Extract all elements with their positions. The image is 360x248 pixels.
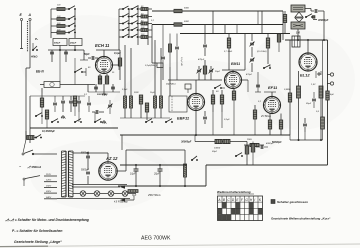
svg-text:5000pF: 5000pF [81,170,89,172]
wire HF bus lower [152,24,283,26]
svg-text:0,3MΩ: 0,3MΩ [284,89,291,91]
resistor right rail2 [321,117,325,129]
switch bank-B row3 + resistor [119,23,123,25]
switch mid row1 [145,121,147,123]
svg-text:5000: 5000 [184,21,190,23]
resistor el12 a [297,86,301,98]
wire bankA caps down [59,50,61,82]
svg-text:A: A [28,13,32,17]
wire ech bottom mesh [88,91,120,93]
resistor det4 [251,144,255,152]
svg-text:AEG 700WK: AEG 700WK [141,236,171,242]
svg-text:30pF: 30pF [212,151,218,153]
tube U2 EBF11 [188,94,205,111]
resistor band x75 [73,96,76,106]
svg-text:Schalter geschlossen: Schalter geschlossen [277,200,308,204]
svg-text:10,30000µF: 10,30000µF [42,130,55,133]
svg-text:0,1: 0,1 [151,20,154,22]
svg-text:1,3V: 1,3V [311,84,316,86]
wire right rail main [327,40,329,165]
tap 240V [44,198,57,200]
svg-text:EF11: EF11 [268,85,278,90]
tube U6 AZ12 rectifier [99,162,117,180]
resistor ef anode [288,93,291,102]
wire heater bottom [57,198,130,200]
component box mid [157,63,163,68]
resistor bank-A row1 + switch S1 [51,8,57,10]
output transformer box [292,36,300,47]
resistor bank-A row2 + switch S2 [51,18,57,20]
wire el12 anode [307,40,309,53]
choke L field coil [184,164,187,177]
wire em verticals [244,34,246,71]
capacitor col d [69,100,73,102]
wire em-ef link [257,72,259,92]
svg-text:0,7·10kΩ: 0,7·10kΩ [224,51,233,53]
tap 110V [44,175,57,177]
svg-text:240V: 240V [45,196,52,199]
wire HF bus upper [152,10,283,12]
wire band drop [29,96,31,128]
resistor bus2 left [174,23,182,26]
wire speaker col [297,29,299,40]
svg-text:2V 50mA: 2V 50mA [260,115,271,118]
wire power low bus [118,185,206,187]
svg-text:200V: 200V [45,191,52,193]
wire mid long bus [120,134,290,136]
svg-text:3µF: 3µF [132,194,137,197]
capacitor pad row [94,86,98,88]
wire em out [242,79,249,81]
resistor osc anode [118,58,121,66]
svg-text:250V 50mA: 250V 50mA [147,194,161,197]
tap 200V [44,192,57,194]
wire bank B rail [118,9,120,40]
capacitor band x55 [53,102,57,104]
terminal out2 [330,82,333,85]
svg-text:500µF: 500µF [54,43,61,45]
resistor mid band2 [145,103,148,112]
svg-text:100: 100 [98,78,103,81]
wire choke bottom [184,177,186,186]
wire left col [41,88,43,108]
wire IF bottoms [124,108,126,118]
capacitor right [312,98,316,100]
wire bankB->IF verticals [124,45,126,96]
svg-text:470pF: 470pF [246,73,253,76]
capacitor top right [314,9,316,13]
svg-text:0,1µF 4V: 0,1µF 4V [180,57,183,66]
ground band [62,115,64,117]
capacitor col c [61,100,65,102]
heater lamp 2 [94,191,100,197]
svg-text:30000pF: 30000pF [181,140,192,144]
svg-text:15pF: 15pF [150,92,155,94]
svg-text:P₂ = Schalter für Schnellsuc: P₂ = Schalter für Schnellsuchen [12,229,62,233]
resistor ef cath [268,120,271,129]
wire choke top [180,149,185,151]
wire E lead [21,21,23,47]
wire bank A rails [50,9,52,38]
wire A lead [29,21,31,62]
resistor mid band1 [139,95,142,104]
svg-text:40kΩ: 40kΩ [30,55,37,59]
wire drop 237 [236,25,238,34]
switch bank-B row5 + resistor [119,36,123,38]
svg-text:150V: 150V [46,185,52,187]
capacitor 5000pF a [86,155,90,157]
svg-text:5000: 5000 [97,94,103,96]
wire band top [30,95,85,97]
svg-text:ECH 11: ECH 11 [95,43,110,48]
capacitor ebf [203,116,207,118]
capacitor IF trim [95,110,97,114]
resistor det1 [215,139,222,143]
resistor ef r2 [279,120,282,129]
svg-text:EL12: EL12 [300,73,310,78]
resistor below bus3 [277,34,280,42]
coil IF2b [160,96,163,108]
wire bus drop 213 [212,11,214,34]
svg-text:A: A [217,198,220,202]
wire osc top [103,50,105,57]
trimmer mixer 2 [209,69,213,71]
svg-text:Gezeichnete Wellenschalterstel: Gezeichnete Wellenschalterstellung „Kurz… [271,217,331,221]
resistor mixer [203,66,206,74]
wire em right drop [267,60,269,64]
svg-text:50000pF: 50000pF [272,141,282,144]
wire bus drop 262 [261,11,263,34]
suppressor box [27,136,34,140]
wire det line [195,141,247,143]
svg-text:0,1µF(68m): 0,1µF(68m) [145,65,157,67]
wire right rail 2 [322,40,324,117]
resistor below EM11 [232,91,235,100]
wire heater bus pair [72,184,127,186]
fuse Si horizontal [44,82,60,88]
svg-text:⎇-⎇ = Schalter für Motor- un: ⎇-⎇ = Schalter für Motor- und Drucktaste… [5,218,89,222]
tube U4 EF11 [264,97,281,114]
tube U3 EM11 [225,72,242,89]
capacitor C elko 10uF [134,168,139,170]
wire ebf grid [195,80,197,94]
capacitor block A2 [69,39,82,46]
wire az12 out [117,170,126,172]
wire band verticals [41,107,43,124]
heater lamp 1 [80,191,86,197]
capacitor ef c [303,123,307,125]
wire right h140 [290,139,323,141]
resistor col a [40,98,43,107]
svg-text:10000: 10000 [214,148,221,150]
legend closed-switch square [271,200,275,204]
capacitor mesh x163 [161,56,165,58]
wire bankA links [83,50,85,60]
svg-text:EBF11: EBF11 [177,116,190,121]
svg-text:10µF: 10µF [130,173,136,176]
transformer T1 core [65,151,67,197]
wire ebf down [195,111,197,136]
tap 150V [44,186,57,188]
switch above choke [191,159,193,161]
resistor under tube1 [98,76,101,84]
svg-text:Wellenschalterstellung: Wellenschalterstellung [217,190,251,194]
wire mesh v1 [151,25,153,64]
wire heater row [73,193,80,195]
coil IF1b [130,96,133,108]
svg-text:50pF: 50pF [84,53,90,56]
svg-text:25µF: 25µF [305,103,312,105]
switch row left3 [94,121,96,123]
coil L1 antenna winding [27,21,29,52]
wire power mid bus [120,164,187,166]
trimmer mixer 1 [197,69,201,71]
switch mid row2 [165,121,167,123]
wire mid links [120,117,170,119]
resistor ebf screen [220,95,223,104]
contact box speaker [312,16,315,19]
capacitor col e [77,100,81,102]
svg-text:15pF: 15pF [215,71,221,73]
svg-text:Gezeichnete Stellung „Länge“: Gezeichnete Stellung „Länge“ [14,240,62,244]
wire power jog [205,165,207,186]
trimmer cap row2 [250,58,254,60]
speaker magnet lower [291,22,305,29]
wire ef top [271,92,273,97]
transformer T1 primary winding [62,151,67,152]
coupling caps row [50,51,54,53]
heater lamp 4 [122,191,128,197]
coil IF1a [124,96,127,108]
switch bank-B row4 + resistor [119,29,123,31]
svg-text:EE·N: EE·N [36,70,44,74]
wire drop 258t [257,11,259,25]
voltage selector arm [23,178,25,180]
svg-text:2000: 2000 [133,92,139,94]
capacitor left band extra [87,102,91,104]
wire em bottom [222,69,245,71]
resistor det2 [223,139,230,143]
svg-text:5000: 5000 [184,8,190,10]
svg-text:0,1: 0,1 [84,94,87,96]
tube U1 ECH11 [96,57,113,74]
wire det right [246,142,248,147]
resistor el12 b [319,86,323,98]
heater lamp 3 [108,191,114,197]
capacitor block A1 [53,39,67,46]
switch net a [74,71,76,73]
wire trafo tap top [73,152,88,154]
resistor mesh x170 [169,44,172,52]
tube U5 EL12 [299,53,317,71]
wire mesh h [168,79,222,81]
resistor bank-A row3 + switch S3 [51,25,57,27]
wire right h135 link [289,135,291,140]
switch speaker [305,16,307,18]
wire taps join [56,154,58,199]
terminal out1 [330,73,333,76]
svg-text:(2,5·10kΩ): (2,5·10kΩ) [257,51,267,53]
resistor inter-bus [283,15,286,23]
svg-text:470pF: 470pF [198,58,205,61]
svg-text:20µF: 20µF [153,173,160,176]
switch mid right [214,87,216,89]
resistor under tube2 [105,76,108,84]
wire anode bus y40 [285,39,328,41]
speaker magnet upper [291,5,305,12]
transformer T1 secondary winding [69,151,74,152]
svg-text:1MΩ: 1MΩ [247,139,252,141]
wire A down [29,62,31,68]
wire az12 anode [88,152,108,154]
capacitor 5000pF b [86,171,90,173]
table wave-switch grid [218,196,263,221]
switch row left1 [51,121,53,123]
svg-text:0,1µF: 0,1µF [224,119,230,121]
svg-text:⎇ 350mA: ⎇ 350mA [27,165,41,169]
switch mains [22,153,24,155]
IF transformer dashed box [169,96,187,112]
resistor col b [45,110,48,119]
wire mid bus [180,33,290,35]
capacitor osc grid [91,56,93,60]
capacitor C elko 20uF [158,168,163,170]
wire bankA bottom [48,49,84,51]
switch bank-B row1 + resistor [119,8,123,10]
wire bus drop 225 [224,25,226,34]
switch band left4 [35,115,37,117]
resistor em left [227,38,230,48]
wire el12 tap [315,71,317,78]
resistor bus1 left [174,9,182,12]
resistor ebf anode [211,95,214,104]
svg-text:30pF(4m): 30pF(4m) [166,83,176,86]
svg-text:250µF: 250µF [69,43,77,45]
svg-text:40000pF: 40000pF [317,18,329,22]
svg-text:125V: 125V [46,180,52,182]
wire bankB verticals [128,9,130,37]
trim left band [108,104,112,106]
wire bus drop 205 [204,25,206,45]
svg-text:110V: 110V [46,174,51,176]
wire mesh v2 [162,67,164,80]
capacitor mesh x177 [175,46,179,48]
resistor bank-A row4 + switch S4 [51,32,57,34]
svg-text:I: I [254,198,255,202]
component box mid2 [185,84,191,89]
svg-text:AZ 12: AZ 12 [105,156,118,161]
arrow out2 [120,198,125,202]
wire ech right link [113,64,120,66]
svg-text:4,5 F/GB/kap: 4,5 F/GB/kap [114,201,128,204]
resistor ef grid [253,110,256,119]
switch det [235,155,237,157]
resistor ef load [250,143,259,146]
arrow out1 [120,185,125,189]
page edge artifact [0,244,360,247]
switch bank-B row2 + resistor [119,16,123,18]
svg-text:4000µF: 4000µF [266,142,274,145]
tap 125V [44,181,57,183]
resistor low [128,190,138,193]
wire bus drop right [282,11,284,40]
wire band bus [30,127,118,129]
coil IF2a [154,96,157,108]
capacitor det [260,145,262,149]
switch row left2 [74,121,76,123]
svg-text:EM11: EM11 [231,62,240,66]
svg-text:0,1: 0,1 [258,101,261,103]
resistor right rail [326,91,329,100]
resistor em right [266,38,269,48]
wire mesh v3 [176,55,178,80]
resistor det3 [245,146,249,154]
trimmer cap row1 [250,42,254,44]
svg-text:0,1µF: 0,1µF [122,89,128,91]
svg-text:8µF: 8µF [330,94,334,96]
